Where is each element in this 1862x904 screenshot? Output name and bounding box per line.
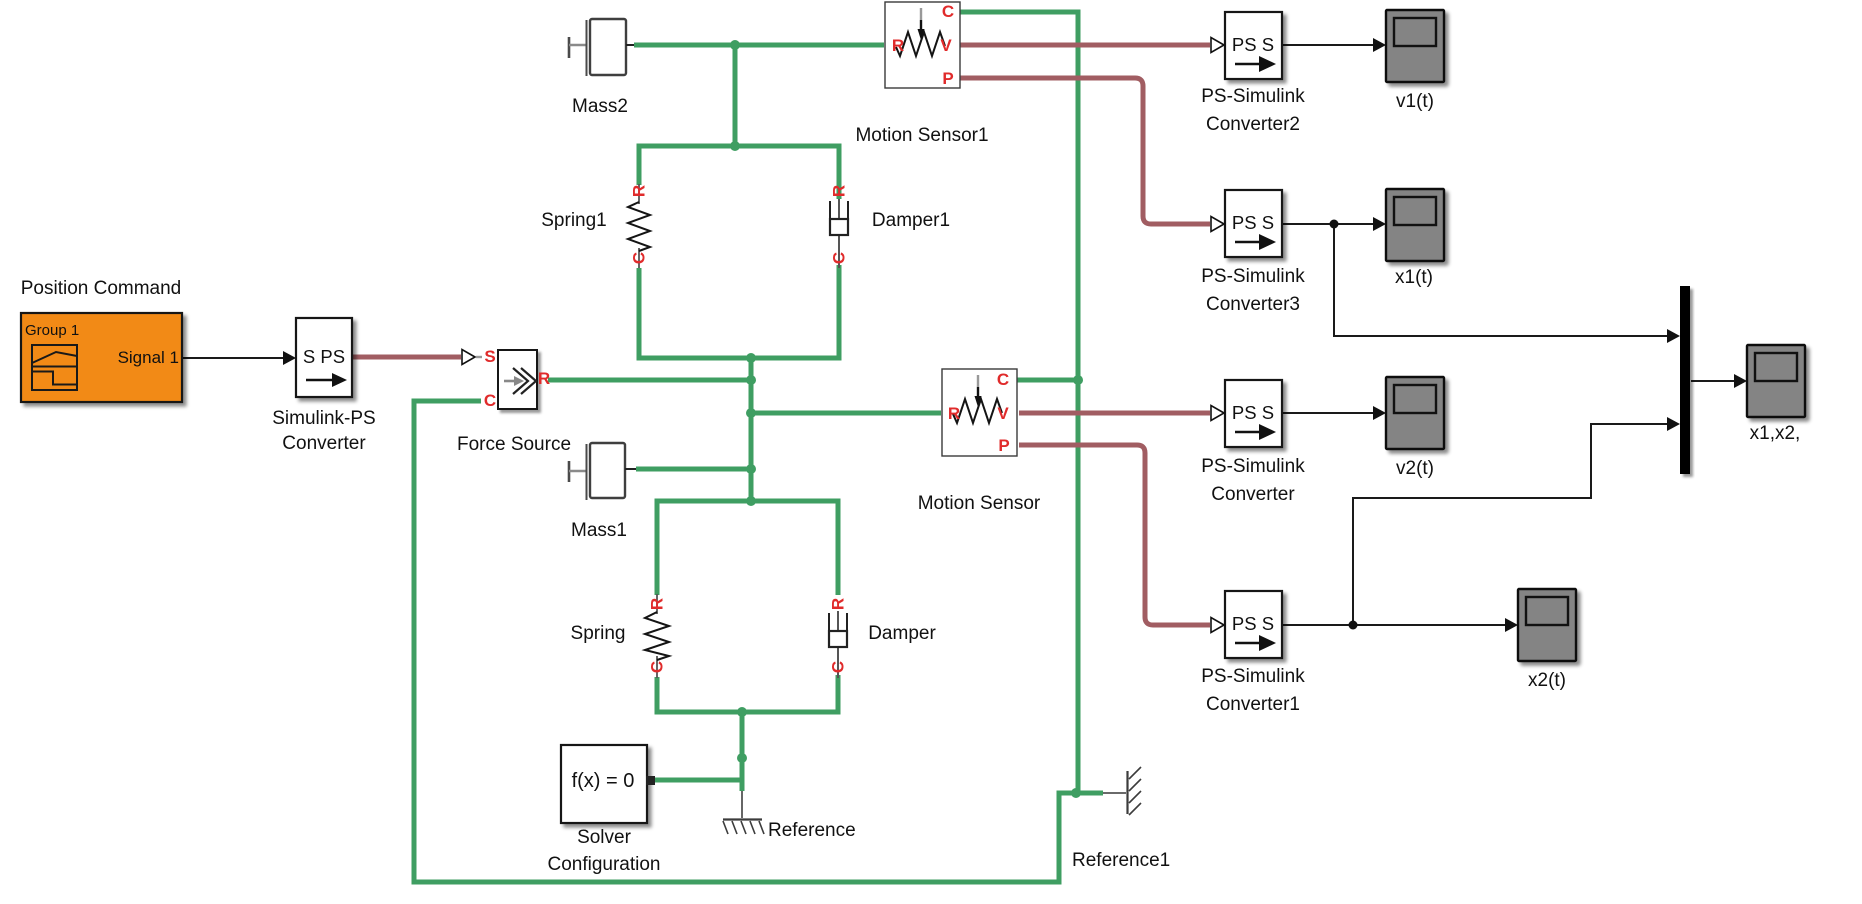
svg-text:S PS: S PS (303, 346, 345, 367)
block Simulink-PS Converter (272, 318, 375, 454)
svg-text:Spring1: Spring1 (541, 210, 607, 231)
junction node motion sensor R wire (746, 408, 756, 418)
junction node reference branch (737, 753, 747, 763)
block PS-Simulink Converter3 (1201, 190, 1305, 315)
svg-text:Damper: Damper (868, 623, 936, 644)
block Mass2 (569, 19, 634, 117)
wire green Force Source R port to central node (548, 378, 751, 383)
wire black branch from x1 junction to Mux input 1 (1334, 224, 1680, 343)
block scope x1(t) (1386, 189, 1444, 288)
block Position Command signal source (21, 313, 182, 402)
svg-text:R: R (892, 36, 904, 55)
block PS-Simulink Converter (1201, 380, 1305, 505)
svg-text:Converter: Converter (1211, 484, 1295, 505)
svg-text:Reference1: Reference1 (1072, 850, 1170, 871)
svg-text:C: C (829, 661, 848, 673)
svg-text:Group 1: Group 1 (25, 322, 79, 339)
block Motion Sensor (918, 369, 1041, 514)
ground Reference (723, 791, 856, 841)
svg-text:V: V (997, 404, 1009, 423)
block Mux (1680, 286, 1690, 474)
svg-text:Mass2: Mass2 (572, 96, 628, 117)
svg-text:Mass1: Mass1 (571, 520, 627, 541)
svg-text:PS-Simulink: PS-Simulink (1201, 266, 1305, 287)
svg-text:C: C (830, 252, 849, 264)
svg-text:R: R (948, 404, 960, 423)
svg-text:Converter1: Converter1 (1206, 694, 1300, 715)
junction node force source R (746, 375, 756, 385)
svg-text:Signal 1: Signal 1 (118, 348, 179, 367)
svg-text:S: S (484, 347, 495, 366)
svg-text:R: R (830, 185, 849, 197)
block scope v1(t) (1386, 10, 1444, 112)
svg-text:Reference: Reference (768, 820, 856, 841)
svg-text:C: C (484, 391, 496, 410)
block scope v2(t) (1386, 377, 1444, 479)
junction node reference1 (1071, 788, 1081, 798)
wire green Motion Sensor C to vertical line (1015, 378, 1078, 383)
junction node x2 branch (1349, 621, 1358, 630)
junction node motion sensor C (1073, 375, 1083, 385)
junction node mass1 wire (746, 464, 756, 474)
svg-text:Converter2: Converter2 (1206, 114, 1300, 135)
wire maroon Motion Sensor1 P to PS-Simulink Converter3 (958, 78, 1210, 224)
block Motion Sensor1 (855, 2, 988, 146)
junction node box2 bottom (737, 707, 747, 717)
wire black Signal 1 to Simulink-PS Converter (182, 351, 296, 365)
wire green top of Spring/Damper parallel box (657, 501, 838, 595)
junction node on Mass2 wire (730, 40, 740, 50)
wire black Converter3 to scope x1(t) (1282, 217, 1386, 231)
wire green vertical to Reference node (740, 712, 745, 791)
svg-text:x1(t): x1(t) (1395, 267, 1433, 288)
svg-text:x1,x2,: x1,x2, (1750, 423, 1801, 444)
wire green Mass1 to central node (636, 467, 751, 472)
junction node x1 branch (1330, 220, 1339, 229)
wire black Converter1 to scope x2(t) (1282, 618, 1518, 632)
svg-text:Motion Sensor: Motion Sensor (918, 493, 1041, 514)
wire black Converter2 to scope v1(t) (1282, 38, 1386, 52)
wire maroon Simulink-PS Converter to Force Source S (353, 355, 461, 360)
svg-text:v1(t): v1(t) (1396, 91, 1434, 112)
svg-text:Solver: Solver (577, 827, 632, 848)
junction node box bottom (746, 353, 756, 363)
svg-text:P: P (942, 69, 953, 88)
svg-text:R: R (829, 598, 848, 610)
svg-text:C: C (997, 370, 1009, 389)
wire black Mux output to scope x1,x2 (1691, 374, 1747, 388)
svg-text:C: C (648, 661, 667, 673)
label Position Command (21, 278, 182, 299)
component Spring (571, 594, 669, 678)
wire maroon Motion Sensor P to PS-Simulink Converter1 (1019, 445, 1210, 625)
ground Reference1 (1072, 767, 1170, 871)
block Solver Configuration (547, 745, 660, 875)
svg-text:PS-Simulink: PS-Simulink (1201, 86, 1305, 107)
svg-text:f(x) = 0: f(x) = 0 (572, 770, 635, 792)
wire maroon Motion Sensor V to PS-Simulink Converter (1019, 411, 1210, 416)
svg-text:R: R (538, 369, 550, 388)
svg-text:R: R (648, 598, 667, 610)
wire green bottom of Spring/Damper parallel box (657, 675, 838, 712)
wire maroon Motion Sensor1 V to PS-Simulink Converter2 (958, 43, 1210, 48)
svg-text:C: C (630, 252, 649, 264)
svg-text:v2(t): v2(t) (1396, 458, 1434, 479)
wire black Converter to scope v2(t) (1283, 406, 1386, 420)
svg-text:C: C (942, 2, 954, 21)
svg-text:Converter: Converter (282, 433, 366, 454)
svg-text:V: V (940, 36, 952, 55)
svg-text:Motion Sensor1: Motion Sensor1 (855, 125, 988, 146)
block PS-Simulink Converter2 (1201, 12, 1305, 135)
junction node box2 top (746, 496, 756, 506)
svg-text:x2(t): x2(t) (1528, 670, 1566, 691)
wire green central node to Motion Sensor R port (751, 411, 941, 416)
block scope x1,x2 (1747, 345, 1805, 444)
wire green bottom of Spring1/Damper1 parallel box (639, 265, 839, 358)
block scope x2(t) (1518, 589, 1576, 691)
svg-text:Simulink-PS: Simulink-PS (272, 408, 375, 429)
svg-text:Spring: Spring (571, 623, 626, 644)
block Mass1 (569, 443, 636, 541)
svg-text:Damper1: Damper1 (872, 210, 950, 231)
wire green Motion Sensor1 C down right side to Reference1 node (958, 12, 1078, 793)
svg-text:PS-Simulink: PS-Simulink (1201, 456, 1305, 477)
block Force Source (457, 347, 571, 455)
svg-text:Converter3: Converter3 (1206, 294, 1300, 315)
svg-text:P: P (998, 436, 1009, 455)
wire black branch from x2 junction to Mux input 2 (1353, 417, 1680, 625)
component Damper (829, 598, 937, 678)
svg-text:R: R (630, 185, 649, 197)
junction node top box (730, 141, 740, 151)
wire green top of Spring1/Damper1 parallel box (639, 146, 839, 199)
wire green central vertical node line (749, 358, 754, 502)
wire green Force Source C loop around bottom to Reference1 (414, 401, 1103, 882)
svg-text:Configuration: Configuration (547, 854, 660, 875)
wire green Solver Configuration to Reference node (655, 778, 742, 783)
svg-text:Force Source: Force Source (457, 434, 571, 455)
wire green Mass2 to Motion Sensor1 R port (634, 43, 884, 48)
block PS-Simulink Converter1 (1201, 591, 1305, 715)
wire green vertical branch from Mass2 wire down to Spring1/Damper1 box (733, 45, 738, 146)
svg-text:Position Command: Position Command (21, 278, 182, 299)
svg-text:PS-Simulink: PS-Simulink (1201, 666, 1305, 687)
component Damper1 (830, 185, 951, 268)
component Spring1 (541, 184, 650, 268)
